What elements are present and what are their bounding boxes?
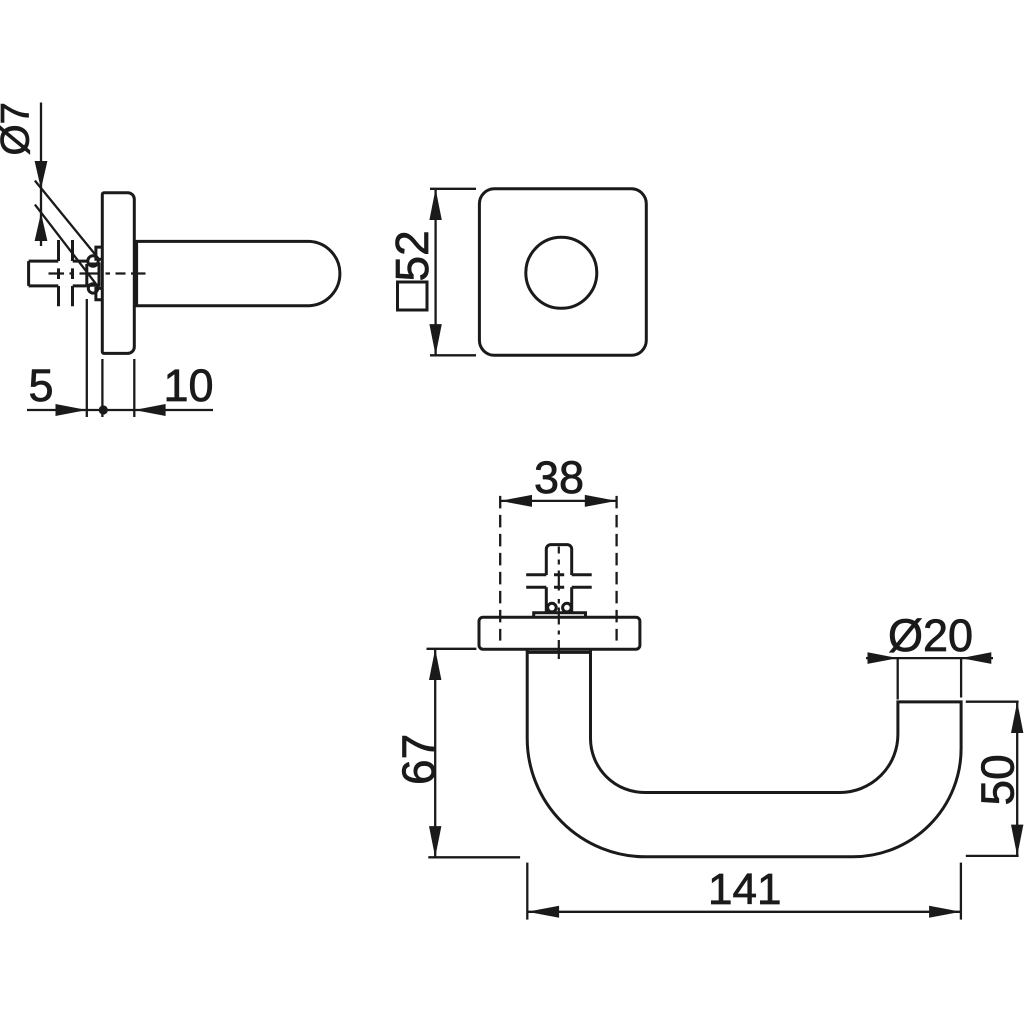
dim 38 arrow right (585, 495, 617, 507)
svg-text:5: 5 (29, 360, 54, 411)
ext line right (960, 863, 962, 920)
dim Ø7 arrow down (35, 161, 48, 189)
dim line 5/10 (27, 409, 213, 411)
svg-text:Ø20: Ø20 (888, 610, 973, 661)
dim line 67 (434, 649, 436, 858)
neck parting line (527, 651, 590, 654)
lever handle outline (527, 649, 961, 857)
tick top (rose bottom) (427, 648, 477, 650)
junction dot at x=103.3 (99, 405, 108, 414)
clip wire loop right (563, 603, 572, 612)
dim 52 vertical dimension line (434, 189, 436, 355)
dim Ø7 extension diagonal lower (35, 205, 98, 287)
dim line Ø20 (866, 657, 993, 659)
spring clip wire circle bottom (88, 284, 97, 293)
tick bottom (handle bottom) (428, 856, 520, 858)
dim 67 arrow down (429, 826, 441, 857)
spring clip wire circle top (88, 256, 98, 266)
dim Ø20 arrow pointing left (961, 652, 991, 664)
spindle front (546, 545, 571, 613)
dim Ø7 extension diagonal upper (35, 181, 98, 259)
label square symbol (398, 282, 428, 310)
ext line clip back (x=86.8) (86, 299, 88, 417)
svg-text:52: 52 (386, 230, 438, 281)
rose bar (edge view) (479, 617, 640, 649)
clip cross line lower (526, 586, 592, 589)
svg-text:67: 67 (393, 734, 445, 785)
ext line rose back (x=102.4) (101, 359, 103, 417)
rose (side view) rounded plate (102, 193, 134, 354)
tube root line at rose face (135, 241, 138, 305)
dim 52 top tick (430, 188, 476, 190)
ext line grip right (960, 658, 962, 697)
dim line 38 (500, 500, 616, 502)
svg-text:141: 141 (708, 865, 781, 914)
rose back lug bottom (96, 288, 102, 299)
clip cross line upper (526, 573, 592, 576)
spindle (square shaft, side view) (29, 261, 87, 286)
rose center hole circle (526, 237, 597, 308)
dim Ø7 arrow up (35, 213, 48, 241)
spring clip body (87, 264, 99, 285)
square rose plate (479, 189, 646, 355)
dim line 141 (527, 911, 961, 913)
ext line left (526, 863, 528, 920)
dim Ø20 arrow pointing right (868, 652, 898, 664)
arrow left toward x=134.3 (134, 404, 165, 416)
clip wire loop left (548, 603, 557, 612)
dim line 50 (1016, 702, 1018, 856)
vertical centerline (558, 547, 560, 660)
support plate (534, 613, 586, 618)
svg-text:Ø7: Ø7 (0, 102, 38, 155)
arrow right toward x=86.8 (56, 404, 87, 416)
cross plate line right (hidden through spindle) (71, 240, 74, 306)
dim 50 arrow up (1011, 702, 1023, 733)
lever tube (side view) with round cap (134, 241, 340, 305)
rose back lug top (96, 247, 102, 259)
ext line grip left (897, 658, 899, 699)
dim 52 bottom tick (430, 354, 476, 356)
cross plate line left (hidden through spindle) (57, 240, 60, 306)
tick top (grip top) (966, 701, 1019, 703)
ext line dashed right (615, 496, 617, 641)
horizontal centerline of tube (49, 272, 146, 274)
svg-text:10: 10 (164, 360, 214, 411)
dim 67 arrow up (429, 649, 441, 680)
dim 38 arrow left (500, 495, 532, 507)
ext line dashed left (499, 496, 501, 641)
svg-text:50: 50 (972, 754, 1024, 805)
tick bottom (966, 855, 1019, 857)
dim 141 arrow right (929, 906, 961, 918)
dim 52 arrow down (429, 324, 441, 355)
dim 52 arrow up (429, 189, 441, 220)
dim Ø7 vertical dimension line (40, 103, 42, 247)
svg-text:38: 38 (534, 452, 584, 503)
dim 141 arrow left (527, 906, 559, 918)
ext line rose front (x=134.3) (133, 359, 135, 417)
dim 50 arrow down (1011, 825, 1023, 856)
